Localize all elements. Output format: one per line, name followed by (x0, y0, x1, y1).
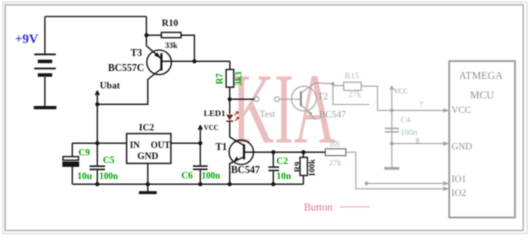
svg-text:27k: 27k (329, 157, 343, 167)
svg-text:10n: 10n (276, 172, 292, 182)
svg-text:7: 7 (419, 100, 423, 109)
svg-text:100n: 100n (99, 171, 118, 181)
svg-text:LED1: LED1 (204, 108, 226, 118)
svg-text:BC557C: BC557C (108, 63, 144, 74)
svg-text:MCU: MCU (470, 90, 494, 101)
svg-text:3k3: 3k3 (234, 71, 244, 86)
svg-text:R10: R10 (162, 19, 179, 29)
svg-text:Button: Button (304, 203, 333, 214)
svg-text:100n: 100n (202, 170, 221, 180)
svg-text:T3: T3 (131, 48, 143, 59)
svg-text:Ubat: Ubat (100, 81, 121, 91)
svg-text:VCC: VCC (452, 106, 472, 116)
svg-text:BC547: BC547 (319, 110, 346, 120)
svg-text:R9: R9 (292, 162, 302, 172)
svg-text:BC547: BC547 (231, 165, 260, 176)
svg-text:R15: R15 (345, 71, 359, 81)
svg-text:C5: C5 (103, 156, 115, 166)
svg-text:KIA: KIA (232, 52, 336, 164)
svg-text:100k: 100k (307, 159, 317, 177)
svg-text:GND: GND (452, 143, 473, 153)
svg-text:33k: 33k (165, 41, 178, 50)
svg-text:R7: R7 (215, 73, 225, 84)
svg-text:ATMEGA: ATMEGA (459, 71, 503, 82)
svg-text:VCC: VCC (204, 125, 219, 132)
svg-text:IO2: IO2 (452, 189, 467, 199)
svg-text:IO1: IO1 (452, 175, 467, 185)
svg-text:C2: C2 (276, 157, 288, 167)
svg-text:VCC: VCC (394, 89, 408, 96)
svg-text:8: 8 (416, 136, 420, 145)
svg-text:C9: C9 (78, 149, 90, 159)
svg-text:T2: T2 (318, 93, 329, 103)
svg-text:OUT: OUT (151, 140, 171, 150)
svg-text:IN: IN (130, 140, 141, 150)
svg-text:R8: R8 (330, 139, 340, 149)
svg-text:IC2: IC2 (139, 123, 155, 133)
svg-text:C4: C4 (401, 114, 412, 124)
svg-text:C6: C6 (181, 171, 193, 181)
svg-text:+9V: +9V (15, 31, 39, 46)
svg-text:27k: 27k (349, 89, 363, 99)
svg-text:T1: T1 (215, 142, 227, 153)
svg-text:GND: GND (137, 152, 158, 162)
svg-text:10u: 10u (77, 172, 93, 182)
svg-text:Test: Test (260, 110, 276, 120)
